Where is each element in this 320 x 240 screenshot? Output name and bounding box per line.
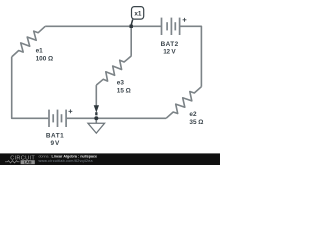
svg-text:BAT1: BAT1: [46, 133, 64, 140]
svg-text:Linear Algebra : nullspace: Linear Algebra : nullspace: [52, 154, 98, 158]
svg-text:12 V: 12 V: [163, 48, 176, 55]
svg-text:BAT2: BAT2: [161, 41, 179, 48]
svg-text:100 Ω: 100 Ω: [36, 56, 54, 63]
svg-text:e3: e3: [117, 79, 125, 86]
svg-text:LAB: LAB: [24, 161, 32, 165]
svg-text:35 Ω: 35 Ω: [189, 119, 203, 126]
svg-text:15 Ω: 15 Ω: [117, 88, 131, 95]
svg-text:x1: x1: [134, 10, 142, 17]
svg-text:donna :: donna :: [39, 154, 51, 158]
svg-text:e2: e2: [189, 111, 197, 118]
svg-text:www.circuitlab.com/62vq42ea: www.circuitlab.com/62vq42ea: [39, 159, 93, 163]
svg-text:e1: e1: [36, 47, 44, 54]
svg-text:9 V: 9 V: [51, 140, 61, 147]
